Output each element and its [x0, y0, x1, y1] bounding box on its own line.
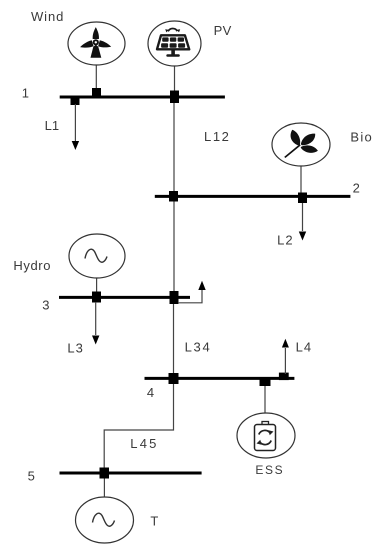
wire bio to bus 2 — [300, 165, 302, 195]
wind turbine icon — [79, 27, 112, 58]
bus 4 — [145, 377, 295, 380]
svg-text:ESS: ESS — [255, 463, 284, 477]
node hydro/L3 on bus 3 — [92, 292, 101, 303]
node PV on bus 1 — [170, 91, 179, 104]
generator circle Wind — [68, 22, 125, 65]
wire ESS to bus 4 — [264, 380, 266, 413]
svg-text:Bio: Bio — [350, 129, 373, 144]
node L45/T on bus 5 — [100, 468, 110, 479]
svg-text:L12: L12 — [204, 129, 231, 144]
node L34 on bus 4 — [169, 373, 179, 384]
hydro sine wave — [85, 249, 107, 262]
wire L12 bus 2 to bus 3 — [173, 197, 175, 297]
node ESS on bus 4 — [260, 378, 271, 387]
storage circle ESS — [237, 413, 295, 458]
node L12 on bus 2 — [169, 191, 178, 202]
svg-text:Wind: Wind — [31, 9, 64, 24]
generator circle Bio — [272, 123, 330, 166]
generator circle T — [76, 497, 134, 543]
bus 2 — [155, 195, 351, 198]
svg-text:2: 2 — [353, 181, 360, 196]
svg-text:5: 5 — [28, 469, 35, 484]
wire T to bus 5 — [103, 474, 105, 497]
svg-text:3: 3 — [42, 298, 49, 313]
wire PV to bus 1 — [174, 65, 176, 96]
bus 1 — [60, 96, 225, 99]
bus 3 — [59, 296, 190, 299]
svg-text:L34: L34 — [185, 339, 212, 354]
generator circle Hydro — [69, 234, 125, 278]
svg-text:1: 1 — [22, 86, 29, 101]
svg-text:L1: L1 — [45, 118, 59, 133]
bio leaf icon — [284, 130, 318, 158]
T sine wave — [93, 513, 115, 526]
PV panel icon — [157, 29, 189, 57]
node L34 on bus 3 — [170, 291, 179, 304]
load arrow L2 — [299, 203, 306, 241]
node L1 on bus 1 — [71, 96, 80, 105]
load arrow L1 — [72, 104, 79, 150]
svg-text:4: 4 — [147, 385, 154, 400]
wire L12 bus 1 to bus 2 — [173, 97, 175, 196]
svg-text:T: T — [150, 514, 158, 529]
node bio/L2 on bus 2 — [298, 193, 307, 204]
bus 5 — [60, 472, 202, 475]
svg-text:Hydro: Hydro — [13, 258, 51, 273]
svg-text:PV: PV — [214, 23, 232, 38]
svg-text:L2: L2 — [277, 233, 293, 248]
node wind on bus 1 — [92, 88, 101, 98]
injection arrow at bus 3 — [178, 281, 206, 303]
wire hydro to bus 3 — [96, 277, 98, 296]
load arrow L4 (up) — [282, 339, 289, 374]
generator circle PV — [148, 21, 201, 66]
svg-text:L45: L45 — [130, 436, 158, 451]
svg-text:L3: L3 — [67, 340, 83, 355]
svg-text:L4: L4 — [296, 339, 312, 354]
wire L45 bus 4 to bus 5 — [104, 380, 173, 472]
wire L34 bus 3 to bus 4 — [173, 298, 175, 378]
load arrow L3 — [92, 302, 99, 345]
ESS battery icon — [255, 422, 276, 451]
node L4 on bus 4 — [279, 373, 289, 381]
wire wind to bus 1 — [95, 64, 97, 96]
